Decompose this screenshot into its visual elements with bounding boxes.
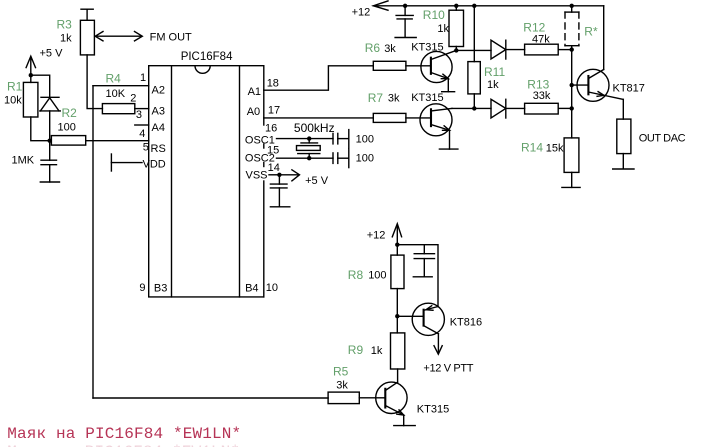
svg-text:+12: +12	[367, 230, 386, 242]
node: VSS junction	[277, 173, 281, 177]
svg-text:B4: B4	[245, 283, 258, 295]
wire: A1 pin 18 to R6	[264, 66, 374, 90]
resistor R2	[51, 106, 85, 145]
svg-text:B3: B3	[154, 283, 167, 295]
svg-text:1k: 1k	[60, 33, 72, 45]
svg-text:KT816: KT816	[450, 317, 482, 329]
svg-text:33k: 33k	[533, 90, 551, 102]
zener diode VD1	[40, 97, 61, 140]
wire: R2 to chip pin 4	[86, 140, 149, 142]
svg-text:R4: R4	[106, 72, 122, 86]
svg-text:17: 17	[268, 105, 280, 117]
svg-text:4: 4	[139, 128, 145, 140]
+12 V PTT arrow terminal	[423, 346, 473, 375]
svg-text:A4: A4	[152, 122, 165, 134]
node: R13 / R14	[570, 106, 574, 110]
resistor R7	[368, 91, 430, 122]
svg-text:R3: R3	[57, 18, 73, 32]
wire: rail down to KT817 collector	[603, 6, 605, 70]
svg-text:47k: 47k	[532, 34, 550, 46]
svg-text:100: 100	[356, 153, 374, 165]
resistor R13	[525, 78, 572, 115]
node: OSC1 / crystal	[307, 136, 311, 140]
svg-text:R11: R11	[484, 65, 505, 79]
diode D2	[491, 99, 525, 118]
node: R12 / R*	[570, 47, 574, 51]
ground (Q1 emitter)	[442, 91, 455, 93]
wire: bottom row to R5	[93, 397, 328, 399]
svg-text:A1: A1	[248, 86, 261, 98]
svg-text:R1: R1	[7, 80, 23, 94]
svg-text:+5 V: +5 V	[40, 48, 64, 60]
svg-text:15k: 15k	[546, 143, 564, 155]
transistor Q4 KT315	[376, 382, 450, 426]
node: rail / R10	[454, 4, 458, 8]
svg-text:R10: R10	[423, 8, 445, 22]
wire: node column to R14	[571, 50, 573, 138]
node: OSC2 / crystal	[307, 156, 311, 160]
svg-text:R8: R8	[348, 268, 364, 282]
svg-text:OUT DAC: OUT DAC	[639, 133, 686, 145]
transistor Q3 KT817	[572, 69, 645, 119]
transistor Q5 KT816	[397, 303, 482, 353]
wire: OSC1 pin 16	[277, 138, 334, 140]
resistor R6	[365, 41, 430, 70]
ground (C5)	[270, 206, 289, 208]
node: +5V / R1 top junction	[29, 73, 33, 77]
svg-text:R9: R9	[348, 343, 364, 357]
svg-text:R*: R*	[584, 25, 598, 39]
svg-text:R2: R2	[62, 106, 78, 120]
svg-text:+5 V: +5 V	[305, 175, 329, 187]
svg-text:18: 18	[267, 78, 279, 90]
transistor Q1 KT315	[411, 42, 456, 92]
svg-text:A0: A0	[247, 106, 260, 118]
svg-text:500kHz: 500kHz	[294, 121, 335, 135]
wire: OSC2 pin 15	[277, 157, 334, 159]
svg-text:10: 10	[266, 282, 278, 294]
svg-text:A3: A3	[152, 106, 165, 118]
node: R8 / R9 / KT816 base	[395, 314, 399, 318]
svg-text:FM OUT: FM OUT	[150, 32, 192, 44]
svg-text:1MK: 1MK	[12, 155, 35, 167]
svg-text:1: 1	[140, 72, 146, 84]
wire: A2 column down to bottom row	[92, 86, 94, 398]
resistor R9	[348, 316, 405, 382]
svg-text:3k: 3k	[384, 43, 396, 55]
svg-text:Маяк на PIC16F84 *EW1LN*: Маяк на PIC16F84 *EW1LN*	[7, 425, 241, 443]
node: R11 / row2	[472, 106, 476, 110]
svg-text:R14: R14	[521, 141, 543, 155]
svg-text:100: 100	[356, 134, 374, 146]
node: R10 / Q1 collector	[454, 48, 458, 52]
capacitor C6	[414, 245, 434, 277]
wire: R3 wiper FM OUT double arrow	[95, 32, 192, 44]
svg-text:10k: 10k	[4, 95, 22, 107]
svg-text:1k: 1k	[437, 23, 449, 35]
resistor R12	[523, 21, 571, 55]
ground (C6)	[413, 276, 432, 278]
transistor Q2 KT315	[411, 92, 491, 149]
VDD terminal	[111, 154, 142, 171]
node: +12 / R8 / C6	[395, 243, 399, 247]
svg-text:R7: R7	[368, 91, 384, 105]
capacitor C5	[270, 175, 287, 207]
svg-text:KT315: KT315	[411, 42, 443, 54]
resistor R1	[4, 75, 50, 141]
load resistor OUT DAC	[617, 119, 686, 169]
svg-text:KT315: KT315	[411, 92, 443, 104]
diode D1	[491, 40, 525, 59]
wire: +5V node to diode	[31, 75, 50, 97]
wire: +12 node to KT816 emitter	[397, 245, 438, 307]
svg-text:5: 5	[143, 142, 149, 154]
svg-text:VDD: VDD	[143, 159, 166, 171]
svg-text:100: 100	[368, 270, 386, 282]
svg-text:KT817: KT817	[613, 83, 645, 95]
+5 V supply arrow	[26, 48, 63, 76]
potentiometer R3	[57, 9, 95, 55]
wire: R3 bottom to R4	[87, 55, 102, 109]
node: R2 / C1 junction	[48, 139, 52, 143]
svg-text:9: 9	[139, 282, 145, 294]
resistor R8	[348, 245, 404, 317]
capacitor C3 100	[333, 130, 374, 149]
+12 arrow terminal (bottom)	[367, 224, 402, 245]
wire: +12 rail	[373, 5, 603, 7]
svg-text:VSS: VSS	[246, 170, 268, 182]
node: rail / R*	[570, 4, 574, 8]
ground (Q4 emitter)	[394, 425, 415, 427]
svg-text:10K: 10K	[106, 88, 126, 100]
svg-text:RS: RS	[151, 143, 166, 155]
svg-text:KT315: KT315	[417, 404, 449, 416]
resistor R11	[468, 6, 506, 109]
svg-text:A2: A2	[152, 85, 165, 97]
resistor R5	[328, 365, 385, 404]
ground (C1)	[40, 181, 59, 183]
node: KT817 base	[570, 83, 574, 87]
svg-text:14: 14	[268, 162, 280, 174]
ground (OUT DAC)	[613, 168, 634, 170]
svg-text:1k: 1k	[487, 79, 499, 91]
+5 V arrow at VSS	[279, 170, 328, 187]
+12 rail arrow terminal	[352, 1, 388, 19]
capacitor C2	[396, 6, 413, 38]
ground (C2)	[395, 37, 416, 39]
wire: chip pin 1 A2	[93, 85, 149, 87]
svg-text:16: 16	[265, 123, 277, 135]
wire: chip pin 3 A4 stub	[135, 124, 149, 126]
svg-text:3k: 3k	[336, 380, 348, 392]
svg-text:PIC16F84: PIC16F84	[181, 51, 233, 63]
op-amp U1 PIC16F84 outline	[149, 51, 264, 297]
resistor R* (dashed)	[565, 6, 598, 50]
wire: VSS pin 14	[269, 174, 279, 176]
svg-text:R12: R12	[523, 21, 545, 35]
svg-text:Маяк на PIC16F84 *EW1LN*: Маяк на PIC16F84 *EW1LN*	[7, 443, 240, 447]
resistor R14	[521, 138, 579, 188]
svg-text:2: 2	[130, 93, 136, 105]
node: rail / R11	[472, 4, 476, 8]
svg-text:3: 3	[136, 109, 142, 121]
crystal ZQ1 500kHz	[294, 121, 335, 158]
resistor R10	[423, 6, 464, 51]
svg-text:3k: 3k	[388, 93, 400, 105]
resistor R4	[102, 72, 148, 114]
svg-text:+12 V PTT: +12 V PTT	[423, 363, 473, 375]
node: rail / C2	[403, 4, 407, 8]
capacitor C1 1MK	[12, 141, 57, 182]
svg-text:1k: 1k	[371, 345, 383, 357]
svg-text:R5: R5	[333, 365, 349, 379]
svg-text:100: 100	[58, 122, 76, 134]
ground (R14)	[562, 186, 580, 188]
capacitor C4 100	[333, 149, 374, 168]
svg-text:+12: +12	[352, 7, 371, 19]
wire: row1 to diode D1	[456, 49, 491, 51]
wire: A0 pin 17 to R7	[264, 117, 374, 119]
svg-text:R6: R6	[365, 41, 381, 55]
ground (Q2 emitter)	[439, 148, 458, 150]
